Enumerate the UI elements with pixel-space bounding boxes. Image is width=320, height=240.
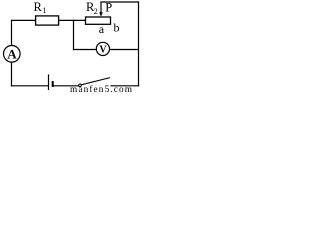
wire switch to right corner [111,85,139,87]
svg-text:A: A [7,46,17,61]
ammeter A1 [4,46,21,63]
switch pivot [79,84,82,87]
svg-text:P: P [105,1,112,15]
svg-text:V: V [99,44,107,55]
wire wiper top horizontal [101,1,139,3]
wire voltmeter right horizontal [110,49,139,51]
wire left vertical lower [11,62,13,86]
battery long plate [48,74,50,90]
resistor R1 [36,16,59,25]
svg-text:a: a [99,22,105,36]
svg-text:R: R [34,0,43,14]
voltmeter V1 [96,42,109,55]
wire left vertical upper [11,20,13,45]
wire bottom left to battery [12,85,48,87]
wire R1 to R2 [59,19,86,21]
svg-text:manfen5.com: manfen5.com [70,84,133,93]
switch lever [81,78,110,85]
wire right vertical [138,2,140,86]
rheostat R2 [86,17,111,24]
svg-text:b: b [114,21,120,35]
wire battery to switch [53,85,78,87]
wire voltmeter vertical branch [73,20,75,49]
battery short plate [52,81,54,87]
svg-text:2: 2 [94,7,98,16]
wiper arrow of R2 [99,2,103,17]
svg-text:1: 1 [43,6,47,15]
wire voltmeter left horizontal [74,49,97,51]
wire top-left horizontal [12,19,36,21]
